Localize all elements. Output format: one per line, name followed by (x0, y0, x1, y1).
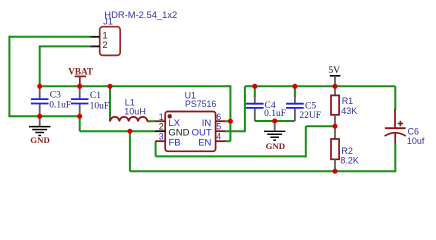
power 5V stub (334, 76, 336, 87)
junction 5V C4 (252, 84, 257, 89)
svg-text:R2: R2 (341, 146, 353, 156)
capacitor C3 plates (31, 98, 49, 100)
U1 pin 5 stub (216, 130, 225, 132)
U1 pin 3 stub (155, 140, 165, 142)
IC U1 body (165, 112, 215, 152)
svg-text:1: 1 (159, 112, 164, 122)
capacitor C6 top plate (385, 127, 406, 129)
svg-text:22UF: 22UF (299, 111, 321, 121)
wire L1 to pin LX (148, 120, 155, 122)
junction C3 GND (37, 114, 42, 119)
wire C1 bottom down (79, 116, 81, 131)
connector J1 body (100, 27, 121, 56)
resistor R1 top lead (334, 86, 336, 95)
U1 pin 1 stub (155, 120, 165, 122)
junction VBAT C1 (77, 84, 82, 89)
inductor L1 (110, 117, 147, 122)
svg-text:C6: C6 (408, 126, 420, 136)
svg-text:VBAT: VBAT (68, 66, 93, 76)
junction 5V C5 (292, 84, 297, 89)
resistor R1 body (331, 95, 339, 114)
capacitor C4 top lead (254, 96, 256, 103)
wire pin2 down to VBAT (39, 45, 41, 86)
U1 pin 2 stub (155, 130, 165, 132)
capacitor C1 plates (71, 98, 89, 100)
wire GND to U1 pin2 (80, 130, 156, 132)
junction 5V R1 (333, 84, 338, 89)
wire 5V rail down to C6 (394, 86, 396, 110)
wire C4 top (254, 86, 256, 97)
connector J1 pin 2 stub (91, 45, 100, 47)
inductor L1 lead (147, 120, 148, 122)
svg-text:5: 5 (216, 122, 221, 132)
wire C5 top (294, 86, 296, 97)
svg-text:C3: C3 (50, 91, 61, 101)
capacitor C5 plates (286, 103, 304, 105)
wire FB down (155, 141, 157, 156)
U1 pin 4 stub (216, 140, 225, 142)
svg-text:10uF: 10uF (90, 101, 110, 111)
wire 5V rail (245, 85, 395, 87)
svg-text:8.2K: 8.2K (340, 155, 359, 165)
capacitor C5 top lead (294, 96, 296, 103)
resistor R2 bottom lead (334, 159, 336, 171)
junction R2 bottom rail (333, 169, 338, 174)
wire FB to divider junction (306, 125, 335, 127)
capacitor C6 bottom lead (394, 133, 396, 144)
capacitor C4 plates (246, 103, 264, 105)
svg-text:J1: J1 (103, 16, 113, 27)
ground right symbol (274, 121, 276, 131)
wire EN join (225, 140, 230, 142)
svg-text:0.1uF: 0.1uF (264, 109, 286, 119)
capacitor C3 top lead (39, 86, 41, 98)
wire J1 pin1 horizontal (9, 36, 90, 38)
wire J1 pin2 horizontal (40, 45, 91, 47)
junction VBAT pin2 C3 (37, 84, 42, 89)
svg-text:2: 2 (159, 122, 164, 132)
wire bottom GND rail (130, 170, 395, 172)
svg-text:43K: 43K (341, 106, 357, 116)
net VBAT bar (75, 75, 87, 77)
wire far-left vertical (8, 36, 10, 117)
wire OUT up to 5V rail (244, 86, 246, 132)
svg-text:C5: C5 (305, 102, 316, 112)
svg-text:C1: C1 (90, 91, 101, 101)
wire FB return horizontal (156, 155, 306, 157)
resistor R2 top lead (334, 126, 336, 139)
wire GND drop to bottom rail (129, 131, 131, 171)
capacitor C6 bottom plate arc (385, 133, 406, 136)
wire bottom-left GND rail (8, 115, 79, 117)
junction IN EN (228, 119, 233, 124)
capacitor C1 bottom lead (79, 104, 81, 116)
svg-text:FB: FB (169, 138, 181, 149)
junction GND drop (127, 129, 132, 134)
capacitor C6 plus sign (398, 123, 404, 125)
svg-text:4: 4 (216, 132, 221, 142)
svg-text:GND: GND (30, 135, 50, 145)
capacitor C4 bottom lead (254, 109, 256, 121)
capacitor C5 bottom lead (294, 109, 296, 121)
capacitor C1 top lead (79, 86, 81, 98)
wire VBAT down to L1 (109, 86, 111, 121)
svg-text:3: 3 (159, 132, 164, 142)
capacitor C3 bottom lead (39, 104, 41, 116)
svg-text:5V: 5V (328, 65, 340, 76)
svg-text:10uf: 10uf (407, 136, 425, 146)
ground left symbol (39, 116, 41, 126)
svg-text:EN: EN (198, 138, 211, 149)
U1 pin1 marker dot (168, 114, 172, 118)
resistor R2 body (331, 139, 339, 159)
svg-text:6: 6 (216, 112, 221, 122)
svg-text:2: 2 (102, 40, 107, 51)
wire IN EN vertical (229, 85, 231, 141)
junction VBAT L1 (108, 84, 113, 89)
svg-text:0.1uF: 0.1uF (49, 101, 71, 111)
resistor R1 bottom lead (334, 115, 336, 126)
junction C4 C5 GND (272, 119, 277, 124)
wire IN join (225, 120, 230, 122)
svg-text:R1: R1 (342, 96, 354, 106)
U1 pin 6 stub (216, 120, 225, 122)
junction R1 R2 FB (333, 124, 338, 129)
capacitor C6 top lead (394, 109, 396, 128)
svg-text:10uH: 10uH (124, 107, 146, 117)
power 5V bar (330, 75, 341, 77)
svg-text:PS7516: PS7516 (185, 99, 216, 109)
svg-text:GND: GND (266, 141, 286, 151)
wire OUT horizontal (225, 130, 245, 132)
svg-text:HDR-M-2.54_1x2: HDR-M-2.54_1x2 (104, 9, 177, 20)
wire VBAT rail (40, 85, 231, 87)
net VBAT stub (79, 76, 81, 86)
wire FB return up (305, 126, 307, 157)
connector J1 pin 1 stub (91, 36, 100, 38)
wire C4 C5 bottom (255, 120, 295, 122)
junction C1 GND (77, 114, 82, 119)
wire C6 bottom (394, 144, 396, 173)
